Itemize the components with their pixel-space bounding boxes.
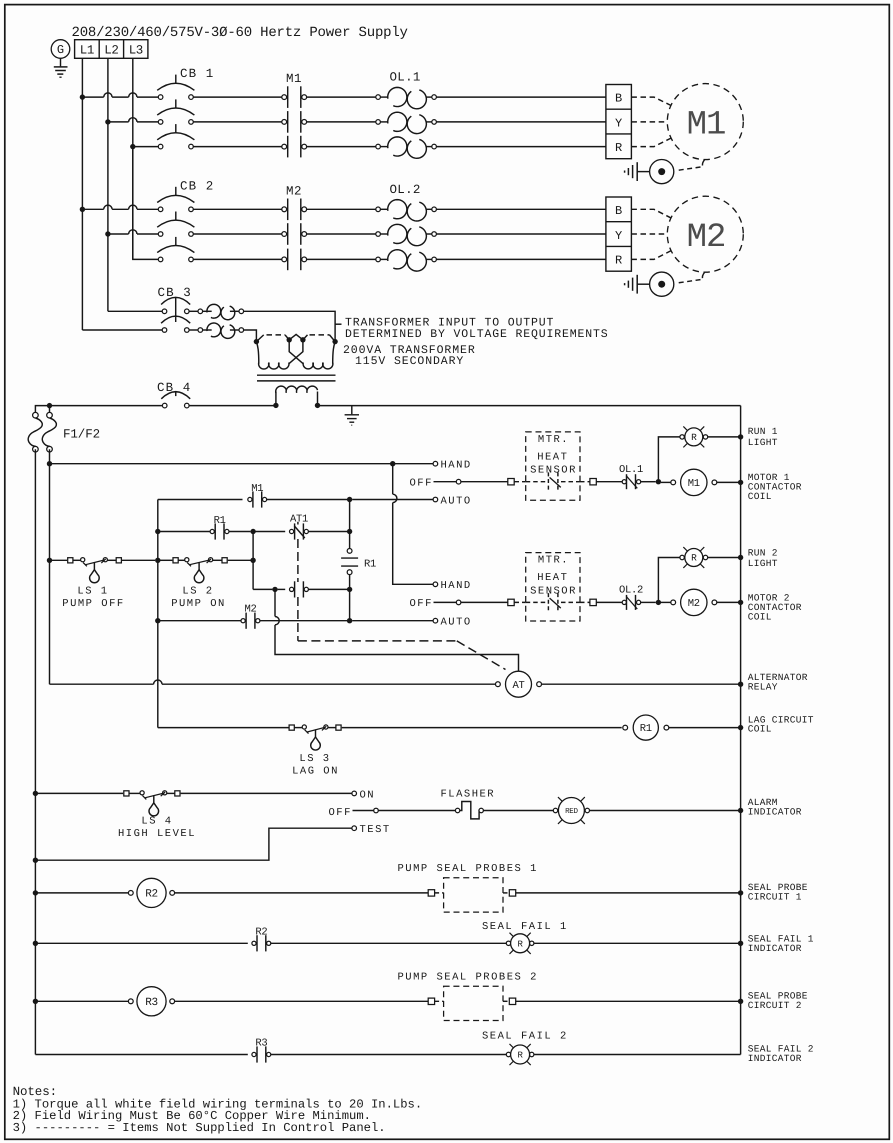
float switch LS 2 xyxy=(173,558,178,563)
svg-text:OFF: OFF xyxy=(329,807,352,819)
svg-text:RUN 1: RUN 1 xyxy=(748,426,778,437)
svg-text:M2: M2 xyxy=(286,185,302,199)
sensor contact 1 xyxy=(526,481,546,483)
R2 contact rung xyxy=(33,941,38,946)
svg-text:SEAL FAIL 2: SEAL FAIL 2 xyxy=(482,1031,568,1043)
svg-text:CB 1: CB 1 xyxy=(180,67,214,81)
svg-text:PUMP ON: PUMP ON xyxy=(171,598,226,610)
terminal box B Y R motor 2 xyxy=(606,197,632,271)
seal fail 1 indicator R xyxy=(506,941,510,945)
wire OL.1 to terminal box 1 xyxy=(436,96,606,98)
AT1 NO contact rung xyxy=(253,588,272,590)
ON terminal xyxy=(352,791,357,796)
AT1 linkage dashed xyxy=(297,522,299,525)
secondary ground xyxy=(351,406,353,415)
branch vertical mid xyxy=(349,500,351,549)
svg-text:RUN 2: RUN 2 xyxy=(748,547,778,558)
M1 aux contact rung xyxy=(158,499,243,501)
wire row6 L3 corner to CB2 xyxy=(133,147,158,260)
left rail xyxy=(34,449,36,1054)
run 1 pilot light R xyxy=(680,435,684,439)
AUTO 1 line xyxy=(372,499,434,501)
svg-text:OL.1: OL.1 xyxy=(390,71,421,85)
alternator relay rung wire xyxy=(50,683,154,685)
fuse F1 xyxy=(33,412,39,418)
wire L2 corner to CB3 pole1 xyxy=(108,310,162,312)
svg-text:208/230/460/575V-3Ø-60 Hertz P: 208/230/460/575V-3Ø-60 Hertz Power Suppl… xyxy=(72,25,408,41)
dashed leads to motor M1 xyxy=(631,97,672,106)
svg-text:AT: AT xyxy=(512,680,524,692)
svg-text:R1: R1 xyxy=(640,723,652,735)
seal probe terminal motor 1 xyxy=(650,160,674,184)
TEST terminal xyxy=(352,826,357,831)
dashed leads to motor M2 xyxy=(631,209,672,218)
motor M1 circle xyxy=(667,84,743,160)
svg-text:INDICATOR: INDICATOR xyxy=(748,943,802,954)
svg-text:AT1: AT1 xyxy=(290,514,308,526)
feeder L1 vertical xyxy=(81,58,83,330)
motor 2 contactor coil M2 xyxy=(661,601,674,603)
feeder L2 vertical xyxy=(107,58,109,311)
transformer note leader xyxy=(335,323,341,325)
svg-text:DETERMINED BY VOLTAGE REQUIREM: DETERMINED BY VOLTAGE REQUIREMENTS xyxy=(345,328,609,341)
svg-text:L2: L2 xyxy=(104,44,118,58)
primary fuse pole2 xyxy=(189,329,198,331)
float switch LS 4 xyxy=(124,791,129,796)
wire M2 to OL.2 xyxy=(307,208,376,210)
svg-text:CB 4: CB 4 xyxy=(157,381,191,395)
svg-text:HEAT: HEAT xyxy=(537,572,568,584)
svg-text:M1: M1 xyxy=(286,72,302,86)
svg-text:AUTO: AUTO xyxy=(441,495,472,507)
svg-text:SEAL FAIL 1: SEAL FAIL 1 xyxy=(482,921,568,933)
svg-text:RELAY: RELAY xyxy=(748,682,778,693)
primary fuse pole1 xyxy=(189,310,198,312)
motor M2 circle xyxy=(667,196,743,272)
svg-text:SENSOR: SENSOR xyxy=(530,585,577,597)
svg-text:HEAT: HEAT xyxy=(537,451,568,463)
svg-text:INDICATOR: INDICATOR xyxy=(748,807,802,818)
svg-text:Y: Y xyxy=(615,116,622,130)
svg-text:OFF: OFF xyxy=(410,598,433,610)
HAND 1 terminal xyxy=(433,461,438,466)
mtr heat sensor box 2 xyxy=(526,553,580,621)
R2 coil rung xyxy=(33,890,38,895)
ground lug motor 2 xyxy=(636,275,638,294)
AUTO 2 terminal xyxy=(433,618,438,623)
terminal block L1 L2 L3 xyxy=(75,40,148,59)
svg-text:HIGH LEVEL: HIGH LEVEL xyxy=(118,828,196,840)
svg-text:OL.2: OL.2 xyxy=(390,183,421,197)
wire OL.2 to terminal box 2 xyxy=(436,208,606,210)
node rung1 lamp branch xyxy=(656,479,661,484)
svg-text:R: R xyxy=(615,254,622,268)
svg-text:HAND: HAND xyxy=(441,460,472,472)
fuse F2 xyxy=(49,406,51,413)
svg-text:R2: R2 xyxy=(145,889,158,901)
svg-text:R: R xyxy=(615,141,622,155)
wire row2 L2 to CB1 xyxy=(105,119,110,124)
svg-text:LS 3: LS 3 xyxy=(299,753,330,765)
svg-text:AUTO: AUTO xyxy=(441,617,472,629)
svg-text:CB 2: CB 2 xyxy=(180,180,214,194)
wire fuse1 to transformer right xyxy=(244,311,336,339)
svg-text:PUMP OFF: PUMP OFF xyxy=(62,598,124,610)
svg-text:CIRCUIT 1: CIRCUIT 1 xyxy=(748,892,802,903)
svg-text:F1/F2: F1/F2 xyxy=(63,428,100,442)
wire row5 L2 to CB2 xyxy=(105,231,110,236)
transformer core xyxy=(257,374,336,376)
svg-text:SENSOR: SENSOR xyxy=(530,465,577,477)
svg-text:M1: M1 xyxy=(687,107,726,145)
run 2 pilot light R xyxy=(680,555,684,559)
svg-text:M1: M1 xyxy=(688,478,700,490)
svg-text:FLASHER: FLASHER xyxy=(441,789,496,801)
alarm indicator RED lamp xyxy=(553,808,557,812)
svg-text:R: R xyxy=(691,553,697,564)
svg-text:LIGHT: LIGHT xyxy=(748,558,778,569)
wire sensor1 to OL1 contact xyxy=(580,481,590,483)
LS4 rung wire xyxy=(33,791,38,796)
node rung2 lamp branch xyxy=(656,600,661,605)
svg-text:MTR.: MTR. xyxy=(538,555,569,567)
rung1 wire xyxy=(47,461,52,466)
control bus wire xyxy=(35,406,162,412)
svg-text:INDICATOR: INDICATOR xyxy=(748,1053,802,1064)
svg-text:R: R xyxy=(518,939,524,949)
svg-text:LS 2: LS 2 xyxy=(182,586,213,598)
wire M1 to OL.1 xyxy=(307,96,376,98)
wire fuse2 to transformer left xyxy=(244,330,257,339)
svg-text:COIL: COIL xyxy=(748,491,772,502)
lag circuit coil R1 xyxy=(623,725,628,730)
wire CB1 to M1 contacts xyxy=(193,96,281,98)
svg-text:COIL: COIL xyxy=(748,724,772,735)
svg-text:Y: Y xyxy=(615,229,622,243)
right rail xyxy=(740,406,742,1055)
svg-text:COIL: COIL xyxy=(748,611,772,622)
wire sensor2 to OL2 contact xyxy=(580,601,590,603)
svg-text:LS 4: LS 4 xyxy=(141,816,172,828)
seal probe terminals 2 xyxy=(428,998,434,1004)
svg-text:MTR.: MTR. xyxy=(538,434,569,446)
M2 aux contact rung xyxy=(155,618,160,623)
vertical R1 rung to LS rung xyxy=(252,532,254,590)
sensor contact 2 xyxy=(526,601,546,603)
motor 1 contactor coil M1 xyxy=(661,481,674,483)
svg-text:HAND: HAND xyxy=(441,580,472,592)
wire row3 L3 to CB1 xyxy=(130,144,135,149)
svg-text:B: B xyxy=(615,204,622,218)
svg-text:L3: L3 xyxy=(129,44,143,58)
svg-text:R: R xyxy=(691,432,697,443)
svg-text:TEST: TEST xyxy=(360,824,391,836)
seal probe terminal motor 2 xyxy=(650,272,674,296)
wire row1 L1 to CB1 xyxy=(80,94,85,99)
ground electrode G xyxy=(51,40,70,59)
svg-text:PUMP SEAL PROBES 2: PUMP SEAL PROBES 2 xyxy=(398,972,538,984)
transformer secondary coil xyxy=(275,392,277,406)
svg-text:R: R xyxy=(518,1051,524,1061)
svg-text:R3: R3 xyxy=(145,997,158,1009)
selector1 vertical to HAND2 xyxy=(392,464,394,495)
feeder L3 vertical xyxy=(132,58,134,259)
float switch LS 3 xyxy=(289,725,294,730)
float switch LS 1 xyxy=(68,558,73,563)
LS3 rung wire xyxy=(158,727,289,729)
svg-text:CIRCUIT 2: CIRCUIT 2 xyxy=(748,1000,802,1011)
branch vertical left xyxy=(157,500,159,728)
svg-text:RED: RED xyxy=(565,808,578,816)
svg-text:M2: M2 xyxy=(688,598,700,610)
svg-text:M1: M1 xyxy=(251,483,263,495)
svg-text:OL.1: OL.1 xyxy=(619,464,643,476)
transformer primary xyxy=(254,339,259,344)
svg-text:G: G xyxy=(57,43,64,57)
svg-text:115V SECONDARY: 115V SECONDARY xyxy=(355,355,464,368)
svg-text:ON: ON xyxy=(360,789,376,801)
svg-text:L1: L1 xyxy=(80,44,94,58)
wire CB2 to M2 contacts xyxy=(193,208,281,210)
svg-text:LIGHT: LIGHT xyxy=(748,437,778,448)
left sub rail F2 xyxy=(49,449,51,684)
svg-text:3) --------- = Items Not Suppl: 3) --------- = Items Not Supplied In Con… xyxy=(13,1121,386,1135)
svg-text:PUMP SEAL PROBES 1: PUMP SEAL PROBES 1 xyxy=(398,863,538,875)
svg-text:LAG ON: LAG ON xyxy=(292,766,339,778)
TEST return wire xyxy=(35,828,352,860)
R3 contact rung xyxy=(35,1054,247,1056)
seal fail 2 indicator R xyxy=(506,1052,510,1056)
wire row4 L1 to CB2 xyxy=(80,207,85,212)
alternator feed corner xyxy=(274,589,276,616)
R3 coil rung xyxy=(33,999,38,1004)
svg-text:B: B xyxy=(615,92,622,106)
mtr heat sensor box 1 xyxy=(526,432,580,500)
svg-text:M2: M2 xyxy=(687,219,726,257)
ground lug motor 1 xyxy=(636,162,638,181)
R1 contact rung xyxy=(155,529,160,534)
alternator relay AT xyxy=(496,682,501,687)
HAND 2 terminal xyxy=(433,582,438,587)
svg-text:OL.2: OL.2 xyxy=(619,585,643,597)
terminal box B Y R motor 1 xyxy=(606,85,632,159)
wire L1 corner to CB3 pole2 xyxy=(82,329,162,331)
seal probe terminals 1 xyxy=(428,890,434,896)
LS rung wire xyxy=(47,558,52,563)
svg-text:LS 1: LS 1 xyxy=(77,586,108,598)
svg-text:OFF: OFF xyxy=(410,478,433,490)
svg-text:R1: R1 xyxy=(364,559,376,571)
relay R1 capacitor coil xyxy=(347,549,352,554)
